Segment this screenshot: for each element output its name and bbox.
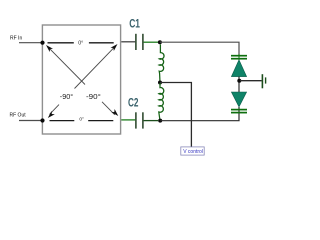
varactor D1 cathode bars [231, 56, 247, 59]
svg-text:-90°: -90° [86, 92, 101, 101]
inductor L1 [159, 44, 164, 82]
node RF Out port [40, 118, 44, 122]
inductor L2 [159, 83, 164, 121]
node top junction [158, 40, 162, 44]
wire C1 to node [144, 41, 158, 43]
capacitor C2 [136, 112, 143, 128]
arrowhead B top-left [46, 45, 53, 52]
capacitor C1 [136, 34, 143, 50]
svg-text:RF In: RF In [10, 36, 22, 42]
wire bottom to varactor branch [160, 107, 239, 121]
wire control feed (L shape) [160, 83, 191, 147]
varactor D1 lead tick [238, 54, 240, 60]
wire RF In [19, 42, 42, 44]
arrowhead A top-right [111, 44, 118, 51]
varactor D2 cathode bars [231, 110, 247, 113]
node varactor midpoint [237, 79, 241, 83]
V control box [181, 147, 204, 155]
wire box to C1 [121, 41, 135, 43]
node bottom junction [158, 119, 162, 123]
wire top to varactor branch [160, 42, 239, 55]
varactor D2 [231, 92, 246, 107]
svg-text:C1: C1 [129, 17, 140, 31]
node between L1 and L2 [158, 81, 162, 85]
wire C2 to node [144, 120, 159, 122]
node RF In port [40, 41, 44, 45]
arrowhead A bottom-left [48, 111, 55, 118]
arrowhead B bottom-right [111, 109, 118, 116]
hybrid coupler box U1 [42, 25, 120, 134]
bypass capacitor plates [262, 74, 265, 88]
wire -90 deg diagonal B (top-left to bottom-right) [48, 47, 115, 115]
wire RF Out [19, 120, 42, 122]
svg-text:-90°: -90° [60, 92, 73, 101]
wire node to bypass cap [240, 80, 262, 82]
varactor D1 [231, 60, 246, 77]
svg-text:RF Out: RF Out [10, 113, 27, 119]
wire 0-deg bottom path [50, 120, 114, 122]
svg-text:0°: 0° [79, 116, 84, 122]
svg-text:0°: 0° [78, 40, 83, 46]
wire -90 deg diagonal A (top-right to bottom-left) [50, 47, 116, 115]
svg-text:V control: V control [183, 149, 203, 155]
wire D1 to node [238, 77, 240, 92]
svg-text:C2: C2 [128, 96, 139, 110]
wire 0-deg top path [48, 42, 114, 44]
wire box to C2 [121, 119, 135, 121]
